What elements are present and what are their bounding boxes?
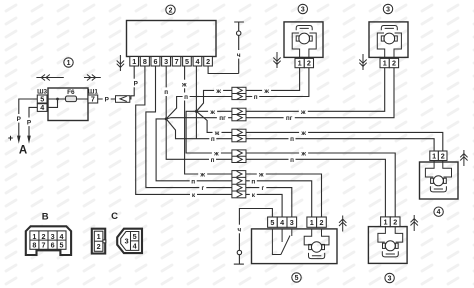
wire P fuse pin7 to connector	[98, 98, 116, 100]
connector C part 1 shell	[92, 229, 105, 254]
svg-text:1: 1	[432, 151, 436, 160]
label zh row1 right	[262, 86, 271, 94]
ground symbol at motor 3a	[273, 52, 280, 68]
label ch on bottom ground wire	[235, 225, 243, 234]
callout circle 3 bottom	[385, 273, 394, 282]
svg-text:2: 2	[320, 218, 324, 227]
callout circle 5	[292, 273, 301, 282]
svg-text:2: 2	[97, 242, 101, 251]
fuse pin 4 box	[37, 104, 47, 112]
svg-text:ж: ж	[181, 82, 187, 89]
connector C part 1 cells	[94, 231, 106, 251]
connector pair row2 box	[232, 108, 246, 121]
svg-text:2: 2	[169, 7, 173, 14]
wire node B diag down to row3 top (zh)	[196, 111, 232, 132]
label p group row2 right	[250, 177, 257, 185]
controller pin 7 box	[172, 57, 181, 67]
wire row4 top to motor3c pin2	[246, 153, 395, 217]
wire node B diag up to row1 top (zh)	[196, 90, 232, 111]
svg-text:г: г	[261, 185, 264, 192]
ground terminal bottom bar	[234, 263, 244, 265]
svg-text:ж: ж	[209, 109, 215, 116]
callout circle 4	[434, 207, 443, 216]
unit 5 pin 1 box	[307, 217, 317, 227]
wire row2 bottom to motor3b pin2	[246, 68, 394, 118]
svg-text:3: 3	[125, 237, 129, 246]
connector B shell	[26, 226, 71, 255]
wire node A diag up to row1 bottom (p)	[166, 97, 232, 119]
callout circle 3 top left	[298, 4, 307, 13]
label k group row4 left	[190, 190, 197, 198]
arrowhead battery wire 1	[17, 136, 21, 144]
node A junction	[165, 117, 168, 120]
svg-text:г: г	[201, 185, 204, 192]
node fuse junction	[56, 98, 59, 101]
label zh row2 right	[299, 107, 308, 115]
svg-text:3: 3	[51, 232, 55, 241]
continuation arrow right of fuse block	[84, 75, 101, 81]
wire fuse pin4 branch	[47, 99, 58, 107]
label zh on pin5 wire	[180, 80, 188, 89]
svg-text:2: 2	[42, 232, 46, 241]
motor 3a pin 2 box	[304, 58, 313, 67]
svg-text:Р: Р	[17, 116, 22, 123]
svg-text:ж: ж	[199, 172, 205, 179]
motor 3a pin 1 box	[295, 58, 304, 67]
fuse pin 7 box	[88, 95, 98, 103]
controller pin 2 box	[204, 57, 213, 67]
wire fuse internal pin5 to F6 to pin7	[47, 98, 88, 100]
label ch on top ground wire	[235, 50, 243, 59]
wire node B down to row3 bottom	[195, 111, 197, 138]
wire row1 bottom to motor3a pin2	[246, 68, 309, 97]
svg-text:2: 2	[392, 59, 396, 68]
wire unit2 pin4 to node B	[195, 66, 197, 111]
label zh row4 right	[299, 149, 308, 157]
wire unit2 pin6 to connector group row3 (g)	[146, 66, 232, 188]
callout circle 2	[166, 5, 175, 14]
wire P connector to unit2 pin1	[130, 66, 134, 99]
svg-text:ж: ж	[263, 88, 269, 95]
label pg row2-bottom left	[217, 114, 228, 122]
label zh row1 left	[214, 86, 223, 94]
inline connector at fuse output	[116, 96, 130, 103]
svg-text:8: 8	[32, 241, 36, 250]
svg-text:пг: пг	[286, 115, 293, 122]
svg-text:4: 4	[60, 232, 64, 241]
connector C part 2 shell	[117, 229, 142, 253]
wire row3 top to motor4 pin2	[246, 132, 443, 151]
label g group row3 right	[259, 184, 266, 192]
ground symbol up at unit 5	[339, 216, 346, 232]
svg-text:1: 1	[132, 57, 136, 66]
label pg row2-bottom right	[284, 114, 295, 122]
svg-text:6: 6	[51, 241, 55, 250]
unit 5 pin 4 box	[277, 217, 287, 227]
svg-text:5: 5	[133, 232, 137, 241]
svg-text:ж: ж	[258, 172, 264, 179]
label p row1-bottom left	[183, 93, 190, 101]
unit 5 pin 5 box	[268, 217, 278, 227]
label P fuse to connector	[103, 95, 111, 104]
svg-text:1: 1	[97, 232, 101, 241]
wire group row4 to unit5 pin4	[246, 194, 282, 217]
svg-text:ч: ч	[237, 52, 241, 59]
wire P from fuse pin5 to battery +	[19, 99, 38, 141]
label p row4-bottom left	[209, 155, 216, 163]
svg-text:3: 3	[301, 7, 305, 14]
label p row4-bottom right	[289, 155, 296, 163]
motor 3a symbol	[292, 33, 316, 58]
label zh group row1 left	[198, 170, 207, 178]
svg-text:1: 1	[384, 217, 388, 226]
svg-text:п: п	[191, 178, 195, 185]
wire group row2 to unit5 pin1	[246, 181, 312, 217]
motor 4 pin 2 box	[438, 151, 447, 161]
wire color labels with white gaps	[15, 50, 308, 234]
svg-text:1: 1	[67, 60, 71, 67]
svg-text:8: 8	[143, 57, 147, 66]
motor 3b box	[369, 22, 408, 58]
connector B cell grid	[30, 231, 66, 249]
wire row1 top to motor3a pin1	[246, 68, 300, 91]
svg-text:5: 5	[270, 218, 274, 227]
svg-text:Р: Р	[105, 97, 110, 104]
unit 5 switch symbol	[272, 229, 291, 255]
arrowhead battery wire 2	[27, 136, 31, 144]
ground symbol at controller	[117, 55, 124, 71]
fuse block U1 box	[48, 88, 88, 121]
wire node B right to row2 top (zh)	[196, 110, 232, 112]
svg-text:1: 1	[383, 59, 387, 68]
controller pin 1 box	[130, 57, 139, 67]
wire row3 bottom to motor4 pin1	[246, 139, 434, 151]
label k group row4 right	[250, 190, 257, 198]
svg-text:Р: Р	[27, 119, 32, 126]
wire row2 top to motor3b pin1	[246, 68, 385, 112]
svg-text:А: А	[19, 145, 27, 157]
svg-text:ж: ж	[300, 109, 306, 116]
wire unit2 pin5 (zh) to connector group row1	[185, 66, 232, 174]
svg-text:2: 2	[206, 57, 210, 66]
svg-text:1: 1	[32, 232, 36, 241]
ground symbol up at motor 3c	[411, 215, 418, 231]
svg-text:3: 3	[164, 57, 168, 66]
callout circle 1	[64, 58, 73, 67]
svg-text:ж: ж	[300, 151, 306, 158]
svg-text:п: п	[254, 94, 258, 101]
svg-text:7: 7	[91, 95, 95, 104]
label p row1-bottom right	[252, 93, 259, 101]
svg-text:ж: ж	[215, 88, 221, 95]
ground terminal top (ch wire)	[234, 22, 244, 74]
svg-text:п: п	[290, 157, 294, 164]
node B junction	[195, 110, 198, 113]
callout circle 3 top right	[383, 4, 392, 13]
motor 3c symbol	[378, 227, 403, 243]
label zh row3 right	[299, 128, 308, 136]
label p row3-bottom left	[209, 135, 216, 143]
label zh group row1 right	[257, 170, 266, 178]
unit 5 pin 2 box	[317, 217, 327, 227]
svg-text:ж: ж	[300, 130, 306, 137]
svg-text:1: 1	[310, 218, 314, 227]
motor 3c pin 1 box	[381, 217, 391, 227]
svg-text:5: 5	[185, 57, 189, 66]
wire unit2 pin8 to connector group row4 (k)	[136, 66, 232, 194]
label g group row3 left	[199, 184, 206, 192]
svg-text:п: п	[211, 136, 215, 143]
ground symbol up at motor 4	[460, 150, 467, 166]
controller pin 5 box	[183, 57, 192, 67]
label p group row2 left	[190, 177, 197, 185]
motor 3b pin 2 box	[389, 58, 398, 67]
controller pin 3 box	[162, 57, 171, 67]
unit 5 pin 3 box	[287, 217, 297, 227]
heater unit 5 box	[252, 229, 338, 264]
svg-text:п: п	[290, 136, 294, 143]
label p row3-bottom right	[289, 135, 296, 143]
motor 3b symbol	[377, 33, 401, 58]
label P connector to pin1	[132, 79, 140, 88]
svg-text:п: п	[251, 178, 255, 185]
wire unit2 pin3 to node A	[165, 66, 167, 119]
wire row4 bottom to motor3c pin1	[246, 159, 385, 217]
svg-text:2: 2	[441, 151, 445, 160]
connector group 4-way box	[232, 171, 246, 198]
wire node A left branch to group row2 (p)	[156, 119, 232, 181]
wire node B left branch to row4 top (zh)	[186, 111, 232, 153]
svg-text:1: 1	[298, 59, 302, 68]
svg-text:5: 5	[60, 241, 64, 250]
motor 4 box	[420, 162, 459, 199]
controller U2 box	[127, 21, 217, 57]
wire group row1 to unit5 pin2	[246, 174, 322, 217]
label P battery wire 1	[15, 114, 22, 123]
motor 4 pin 1 box	[430, 151, 439, 161]
motor 3a box	[284, 22, 323, 58]
svg-text:пг: пг	[219, 115, 226, 122]
connector C part 2 cells	[121, 232, 139, 251]
svg-text:2: 2	[393, 217, 397, 226]
svg-text:4: 4	[133, 241, 137, 250]
label zh row4 left	[212, 149, 221, 157]
svg-text:С: С	[111, 211, 118, 222]
svg-text:2: 2	[307, 59, 311, 68]
label zh row3 left	[213, 128, 222, 136]
motor 3b pin 1 box	[380, 58, 389, 67]
wire unit2 pin2 to chassis terminal	[208, 66, 239, 74]
svg-text:6: 6	[154, 57, 158, 66]
svg-text:п: п	[211, 157, 215, 164]
controller pin 4 box	[193, 57, 202, 67]
wire node A diag down to row3 bottom (p)	[166, 119, 232, 139]
svg-text:7: 7	[42, 241, 46, 250]
motor 4 symbol	[425, 161, 451, 178]
motor 3c pin 2 box	[390, 217, 400, 227]
fuse pin 5 box	[37, 95, 47, 103]
svg-text:п: п	[184, 94, 188, 101]
wire node A right to row2 bottom (pg)	[166, 118, 232, 119]
svg-text:3: 3	[388, 276, 392, 283]
label P battery wire 2	[26, 118, 33, 127]
svg-text:4: 4	[437, 209, 441, 216]
continuation arrow left of fuse block	[36, 75, 63, 81]
svg-text:+: +	[8, 133, 13, 143]
svg-text:В: В	[42, 212, 49, 223]
svg-text:3: 3	[290, 218, 294, 227]
ground symbol at motor 3b	[359, 54, 366, 70]
wire group row3 to unit5 pin3	[246, 188, 292, 217]
wire unit5 pin5 to chassis terminal bottom	[239, 209, 272, 265]
wire node A down to row4 bottom (p)	[166, 119, 232, 159]
svg-text:7: 7	[175, 57, 179, 66]
svg-text:3: 3	[386, 7, 390, 14]
wire P from fuse pin4 down	[29, 107, 37, 140]
label p on pin3 wire	[162, 87, 170, 96]
svg-text:ч: ч	[238, 227, 242, 234]
motor 3c box	[368, 227, 407, 264]
fuse F6 body	[66, 96, 77, 102]
connector pair row3 box	[232, 129, 246, 142]
svg-text:F6: F6	[67, 89, 75, 96]
controller pin 6 box	[151, 57, 160, 67]
connector pair row1 box	[232, 87, 246, 99]
svg-text:Р: Р	[134, 81, 139, 88]
label zh row2 left	[208, 107, 217, 115]
svg-text:4: 4	[280, 218, 284, 227]
svg-text:4: 4	[40, 103, 44, 112]
controller pin 8 box	[140, 57, 149, 67]
unit 5 motor symbol	[304, 229, 329, 245]
svg-text:4: 4	[196, 57, 200, 66]
svg-text:п: п	[164, 89, 168, 96]
svg-text:5: 5	[295, 275, 299, 282]
connector pair row4 box	[232, 150, 246, 163]
